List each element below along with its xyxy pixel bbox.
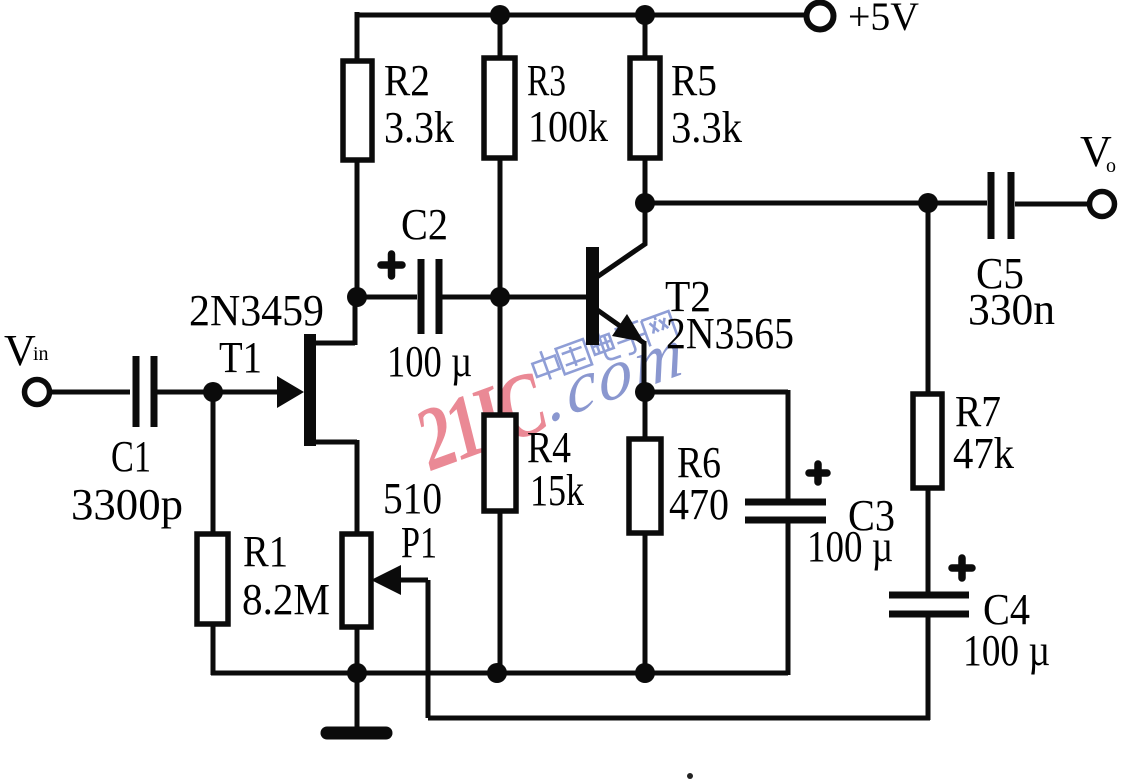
svg-text:330n: 330n (968, 285, 1055, 334)
wire gate node to R1 (211, 392, 216, 534)
svg-text:3300p: 3300p (71, 480, 183, 529)
transistor T1 gate arrow (277, 376, 304, 408)
wire P1 bottom (355, 627, 360, 673)
svg-text:R4: R4 (527, 423, 571, 472)
wire C5 left (928, 201, 987, 206)
wire bottom rail (211, 671, 788, 676)
resistor R3 (484, 58, 515, 158)
svg-text:R2: R2 (384, 56, 430, 105)
terminal Vo (1090, 192, 1115, 217)
plus C3 (809, 464, 827, 482)
svg-text:2N3459: 2N3459 (189, 286, 324, 335)
capacitor C1 plates (136, 356, 154, 427)
wire gate (213, 390, 280, 395)
node top rail R5 (635, 5, 655, 25)
wire ground stem (355, 673, 360, 729)
node bottom R4 (487, 663, 507, 683)
wire R3 bottom to R4 top (498, 158, 503, 415)
plus C2 (381, 254, 402, 276)
wire R5 stub (643, 15, 648, 58)
wire R2 bottom to node (355, 160, 360, 299)
svg-text:V: V (4, 326, 36, 375)
svg-text:15k: 15k (530, 466, 584, 515)
svg-text:R1: R1 (243, 527, 288, 576)
watermark chinese 中国电子网 (529, 305, 678, 386)
node output (918, 193, 938, 213)
wire R4 bottom (498, 511, 503, 673)
capacitor C3 plates (745, 502, 826, 520)
terminal Vin (25, 380, 50, 405)
wire Vin to C1 (49, 390, 130, 395)
speck (687, 773, 693, 779)
watermark 21IC.com (399, 297, 710, 491)
wire R1 bottom (211, 624, 216, 675)
capacitor C4 plates (889, 595, 969, 614)
wire R3 stub (498, 15, 503, 58)
wire rail to R2 (355, 12, 360, 61)
capacitor C5 plates (991, 172, 1011, 239)
transistor T2 emitter arrow (612, 314, 644, 342)
wire C3 riser (786, 520, 791, 675)
svg-text:T1: T1 (219, 333, 262, 382)
wire wiper down (426, 580, 431, 718)
capacitor C2 plates (421, 259, 439, 334)
svg-text:C2: C2 (401, 200, 448, 249)
wire top rail (357, 13, 808, 18)
resistor R6 (629, 439, 661, 533)
svg-text:100k: 100k (528, 102, 608, 151)
svg-text:2N3565: 2N3565 (666, 309, 794, 358)
wire output rail (645, 201, 928, 206)
svg-text:+5V: +5V (848, 0, 919, 39)
plus C4 (952, 558, 972, 578)
resistor R2 (343, 61, 372, 160)
resistor R4 (484, 415, 516, 511)
svg-text:100 µ: 100 µ (963, 626, 1050, 675)
ground (327, 727, 386, 740)
node collector (635, 193, 655, 213)
wire P1 wiper tail (394, 578, 428, 583)
svg-text:510: 510 (383, 474, 442, 523)
resistor R7 (913, 394, 942, 488)
wire lower rail (428, 716, 930, 721)
wire C1 to gate node (157, 390, 213, 395)
wire C2 left (357, 295, 417, 300)
node bottom P1 (347, 663, 367, 683)
wire R6 top (643, 392, 648, 439)
node bottom R6 (635, 663, 655, 683)
svg-text:470: 470 (669, 480, 729, 529)
resistor R1 (197, 534, 228, 624)
svg-text:R5: R5 (671, 56, 717, 105)
node C2 left (347, 287, 367, 307)
svg-text:47k: 47k (953, 429, 1014, 478)
node C2 right (490, 287, 510, 307)
svg-text:3.3k: 3.3k (671, 103, 742, 152)
wire base line (500, 295, 589, 300)
resistor R5 (630, 58, 660, 158)
wire C4 bottom (926, 614, 931, 720)
node top rail R3 (490, 5, 510, 25)
P1 wiper arrow (371, 565, 401, 595)
wire T2 emitter (596, 309, 644, 392)
wire R7 top (926, 203, 931, 394)
wire R7 bottom to C4 (926, 488, 931, 595)
svg-text:P1: P1 (401, 518, 437, 567)
transistor T2 base bar (586, 247, 599, 345)
node gate input (203, 382, 223, 402)
wire T1 drain (314, 297, 355, 345)
svg-text:8.2M: 8.2M (242, 575, 330, 624)
wire emitter node to C3 (645, 390, 788, 502)
svg-text:3.3k: 3.3k (384, 103, 454, 152)
wire R6 bottom (643, 533, 648, 673)
potentiometer P1 (342, 534, 371, 627)
wire T1 source (314, 440, 357, 534)
transistor T1 channel bar (304, 334, 316, 446)
svg-text:100 µ: 100 µ (807, 522, 893, 571)
svg-text:100 µ: 100 µ (387, 337, 472, 386)
wire C2 right (441, 295, 500, 300)
svg-text:R3: R3 (527, 56, 566, 105)
svg-text:in: in (33, 343, 49, 365)
wire T2 collector (597, 203, 645, 277)
wire C5 right (1015, 202, 1089, 207)
svg-text:o: o (1106, 155, 1116, 177)
node emitter (635, 382, 655, 402)
wire R5 bottom to collector node (643, 160, 648, 205)
svg-text:C1: C1 (111, 432, 151, 481)
terminal +5V (807, 3, 834, 30)
